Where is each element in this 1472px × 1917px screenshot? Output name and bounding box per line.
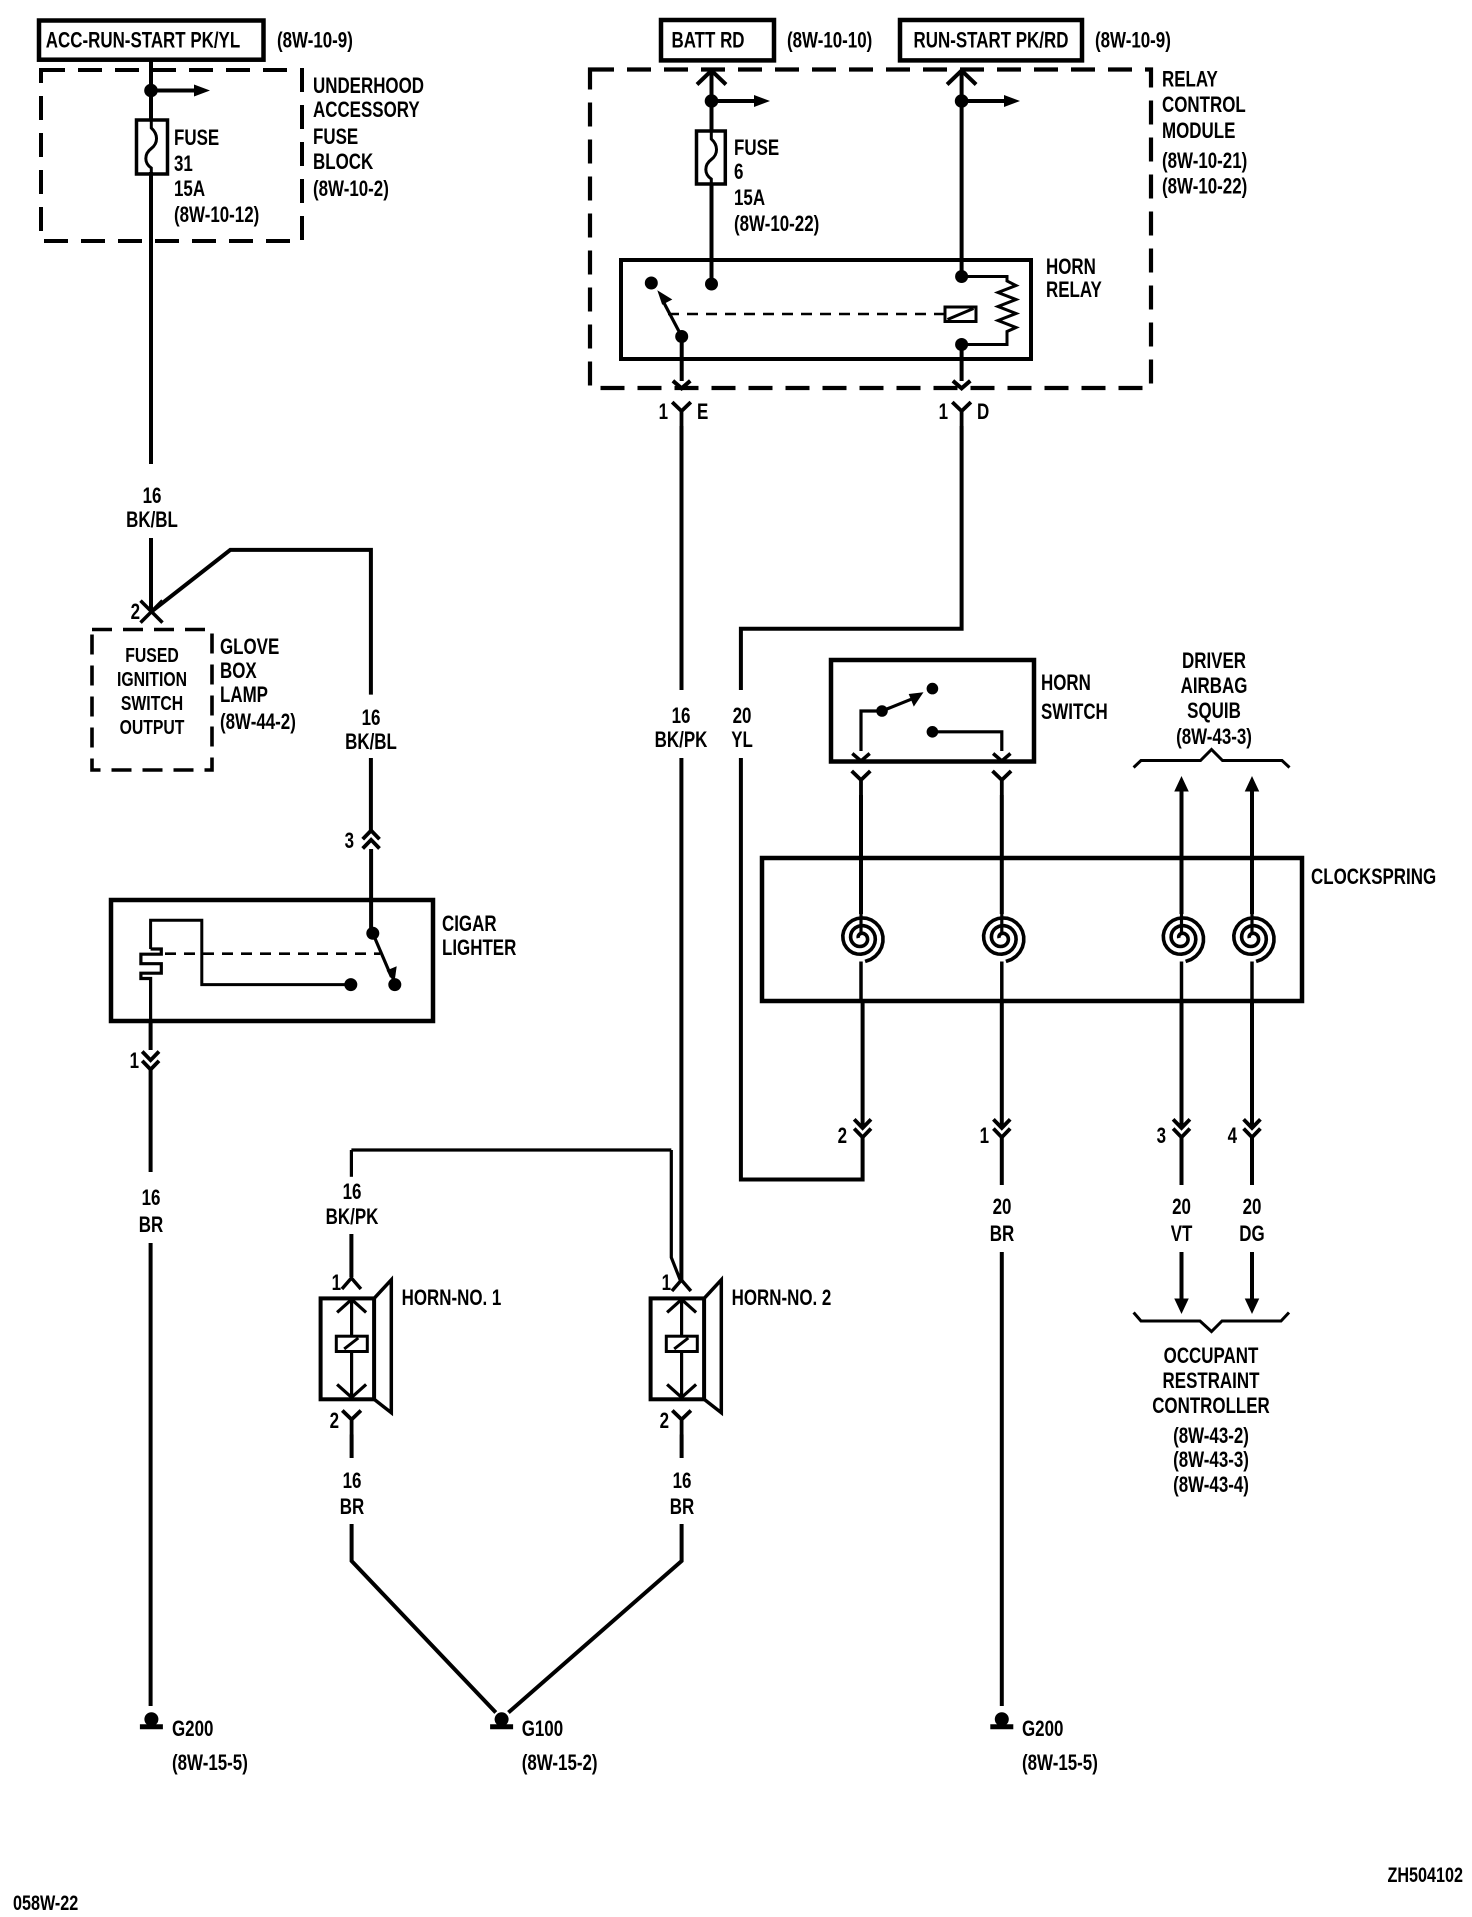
fused ignition switch output box (dashed) — [92, 630, 212, 771]
brace occupant restraint controller — [1134, 1313, 1289, 1332]
svg-text:OCCUPANT: OCCUPANT — [1164, 1344, 1259, 1369]
svg-text:FUSE: FUSE — [174, 126, 219, 151]
svg-text:FUSE: FUSE — [734, 136, 779, 161]
svg-text:2: 2 — [660, 1409, 669, 1434]
relay moving contact dot — [675, 330, 688, 343]
wire relay coil to pin D — [960, 345, 964, 382]
svg-text:CLOCKSPRING: CLOCKSPRING — [1311, 865, 1436, 890]
wire 16 BK/PK from pin E — [680, 426, 684, 690]
svg-text:20: 20 — [993, 1195, 1012, 1220]
wire into horn1 pin 1 — [349, 1234, 353, 1277]
clockspring coil 4 (squib DG) — [1250, 914, 1253, 935]
svg-text:BR: BR — [670, 1495, 694, 1520]
svg-text:D: D — [977, 400, 989, 425]
wire 16 BR upper (left) — [149, 1070, 153, 1173]
arrow down horn switch right pin — [993, 754, 1010, 762]
horn switch box — [831, 660, 1034, 762]
svg-text:ACC-RUN-START PK/YL: ACC-RUN-START PK/YL — [46, 28, 240, 53]
svg-text:6: 6 — [734, 160, 743, 185]
svg-text:(8W-43-2): (8W-43-2) — [1173, 1424, 1249, 1449]
relay switch arm — [664, 302, 682, 337]
svg-text:16: 16 — [672, 704, 691, 729]
underhood accessory fuse block (dashed) — [41, 70, 302, 241]
svg-text:16: 16 — [343, 1469, 362, 1494]
svg-text:(8W-43-3): (8W-43-3) — [1173, 1448, 1249, 1473]
horn relay box — [621, 260, 1031, 359]
svg-text:SQUIB: SQUIB — [1187, 699, 1241, 724]
wire coil1 to connector 2 — [861, 1001, 865, 1128]
svg-text:UNDERHOOD: UNDERHOOD — [313, 74, 424, 99]
svg-text:HORN-NO. 1: HORN-NO. 1 — [402, 1286, 502, 1311]
svg-text:BK/PK: BK/PK — [655, 728, 708, 753]
wire 16 BK/PK to horn no.2 — [679, 758, 683, 1280]
node ACC-RUN-START PK/YL feed box — [39, 21, 264, 60]
svg-text:G100: G100 — [522, 1717, 563, 1742]
svg-text:16: 16 — [343, 1180, 362, 1205]
svg-text:(8W-43-3): (8W-43-3) — [1176, 725, 1252, 750]
in-line connector pin 1 (cigar) — [142, 1052, 159, 1061]
svg-text:(8W-44-2): (8W-44-2) — [220, 710, 296, 735]
arrow feed continues right — [151, 89, 194, 93]
wire RUN-START to relay coil — [960, 71, 964, 277]
relay coil bottom dot — [955, 338, 968, 351]
wire coil2 to connector 1 — [1000, 1001, 1004, 1128]
junction dot fuse 6 feed — [705, 94, 719, 108]
svg-text:1: 1 — [659, 400, 668, 425]
cigar lighter heating element — [141, 949, 161, 1021]
svg-text:(8W-10-9): (8W-10-9) — [277, 28, 353, 53]
fuse F31 — [137, 120, 168, 174]
wire horn1 pin2 — [350, 1435, 354, 1459]
svg-text:20: 20 — [1172, 1195, 1191, 1220]
svg-text:DG: DG — [1239, 1222, 1264, 1247]
wire 16 BK/BL lower segment — [149, 538, 153, 611]
svg-text:RELAY: RELAY — [1046, 278, 1102, 303]
svg-text:1: 1 — [939, 400, 948, 425]
svg-text:16: 16 — [142, 1186, 161, 1211]
svg-text:G200: G200 — [172, 1717, 213, 1742]
svg-text:(8W-10-22): (8W-10-22) — [1162, 174, 1247, 199]
svg-text:(8W-10-2): (8W-10-2) — [313, 177, 389, 202]
arrow down ORC wire 4 — [1245, 1299, 1260, 1315]
wire branch horn1 to horn2 — [351, 1150, 680, 1280]
svg-text:AIRBAG: AIRBAG — [1181, 674, 1248, 699]
arrow up squib wire 4 — [1245, 776, 1260, 792]
svg-text:FUSED: FUSED — [125, 643, 178, 667]
svg-text:ZH504102: ZH504102 — [1388, 1863, 1463, 1887]
horn switch right pin wire — [932, 732, 1001, 751]
connector pin 1 E — [672, 402, 691, 426]
svg-text:BLOCK: BLOCK — [313, 150, 373, 175]
svg-text:(8W-10-9): (8W-10-9) — [1095, 28, 1171, 53]
wire horn1 to G100 — [352, 1524, 496, 1713]
svg-text:BOX: BOX — [220, 659, 257, 684]
svg-text:ACCESSORY: ACCESSORY — [313, 98, 420, 123]
svg-text:(8W-15-2): (8W-15-2) — [522, 1751, 598, 1776]
svg-text:CONTROLLER: CONTROLLER — [1152, 1394, 1270, 1419]
svg-text:G200: G200 — [1022, 1717, 1063, 1742]
svg-text:YL: YL — [731, 728, 753, 753]
connector below horn switch left — [852, 771, 871, 795]
relay common feed dot — [705, 278, 718, 291]
horn switch left pin wire — [861, 711, 882, 751]
wire connector 1 lower — [1000, 1137, 1004, 1185]
wire ACC feed into fuse block — [149, 60, 153, 120]
horn HORN-NO.2 — [651, 1298, 705, 1399]
in-line connector pin 1 (clockspring) — [993, 1119, 1010, 1128]
cigar lighter lamp wire — [151, 920, 351, 984]
wire coil4 to connector 4 — [1250, 1001, 1254, 1128]
horn1 pin 1 connector — [342, 1278, 361, 1289]
svg-text:(8W-10-21): (8W-10-21) — [1162, 149, 1247, 174]
svg-text:1: 1 — [332, 1271, 341, 1296]
svg-text:RELAY: RELAY — [1162, 67, 1218, 92]
arrow RUN-START feed continues right — [962, 99, 1004, 103]
svg-text:16: 16 — [362, 706, 381, 731]
svg-text:(8W-10-22): (8W-10-22) — [734, 212, 819, 237]
wire connector 3 to cigar lighter — [369, 849, 373, 933]
wire horn2 to G100 — [508, 1524, 681, 1713]
svg-text:LAMP: LAMP — [220, 683, 268, 708]
svg-text:BATT RD: BATT RD — [671, 28, 744, 53]
wire branch stub at horn1 — [350, 1150, 353, 1177]
svg-text:2: 2 — [838, 1124, 847, 1149]
horn1 pin 2 connector — [342, 1411, 361, 1435]
svg-text:E: E — [697, 400, 708, 425]
svg-text:058W-22: 058W-22 — [13, 1891, 78, 1912]
arrow up to RUN-START PK/RD — [947, 71, 976, 85]
svg-text:SWITCH: SWITCH — [1041, 700, 1108, 725]
svg-text:31: 31 — [174, 152, 193, 177]
connector below horn switch right — [993, 771, 1012, 795]
wire 20 BR to ground G200 (right) — [1000, 1252, 1004, 1706]
svg-text:(8W-10-12): (8W-10-12) — [174, 203, 259, 228]
clockspring coil 3 (squib VT) — [1180, 914, 1183, 935]
fuse F6 — [697, 131, 726, 184]
svg-text:BK/PK: BK/PK — [326, 1205, 379, 1230]
svg-text:20: 20 — [1243, 1195, 1262, 1220]
clockspring box — [762, 858, 1302, 1001]
node RUN-START PK/RD feed box — [900, 20, 1082, 60]
svg-text:(8W-43-4): (8W-43-4) — [1173, 1473, 1249, 1498]
horn2 pin 2 connector — [672, 1411, 691, 1435]
svg-text:HORN: HORN — [1041, 671, 1091, 696]
wire relay contact to pin E — [680, 337, 684, 382]
arrow down ORC wire 3 — [1174, 1299, 1189, 1315]
horn2 pin 1 connector — [672, 1280, 691, 1291]
svg-text:1: 1 — [662, 1271, 671, 1296]
svg-text:LIGHTER: LIGHTER — [442, 936, 516, 961]
svg-text:SWITCH: SWITCH — [121, 691, 183, 715]
arrow down horn switch left pin — [852, 754, 869, 762]
connector pin 1 D — [952, 402, 971, 426]
relay control module box (dashed) — [590, 70, 1151, 389]
wire 20 DG to ORC — [1250, 1252, 1254, 1299]
svg-text:OUTPUT: OUTPUT — [120, 715, 185, 739]
ground G200 (right) — [995, 1712, 1009, 1726]
in-line connector pin 4 (clockspring) — [1244, 1119, 1261, 1128]
relay resistor — [962, 277, 1016, 345]
cigar lighter dashed actuation line — [165, 952, 380, 955]
wire connector 4 lower — [1250, 1137, 1254, 1185]
svg-text:RESTRAINT: RESTRAINT — [1163, 1369, 1260, 1394]
wire BATT RD to fuse 6 — [710, 71, 714, 132]
svg-text:CIGAR: CIGAR — [442, 912, 497, 937]
brace driver airbag squib — [1134, 750, 1290, 768]
svg-text:BR: BR — [139, 1213, 163, 1238]
svg-text:15A: 15A — [174, 177, 205, 202]
node 2 splice to glove box lamp — [141, 601, 163, 623]
svg-text:BR: BR — [990, 1222, 1014, 1247]
clockspring coil 2 (horn switch 1) — [1000, 914, 1003, 935]
svg-text:HORN-NO. 2: HORN-NO. 2 — [732, 1286, 832, 1311]
clockspring coil 1 (horn switch 2) — [859, 914, 862, 935]
svg-text:15A: 15A — [734, 186, 765, 211]
wire 20 YL from pin D — [741, 426, 962, 690]
svg-text:4: 4 — [1228, 1124, 1237, 1149]
svg-text:2: 2 — [131, 600, 140, 625]
arrow down pin D exit — [953, 381, 970, 389]
svg-text:DRIVER: DRIVER — [1182, 649, 1246, 674]
svg-text:16: 16 — [143, 484, 162, 509]
cigar lighter box — [111, 900, 433, 1021]
svg-text:(8W-15-5): (8W-15-5) — [1022, 1751, 1098, 1776]
svg-text:BR: BR — [340, 1495, 364, 1520]
cigar lighter switch pivot dot — [366, 927, 379, 940]
ground G100 — [495, 1712, 509, 1726]
in-line connector pin 3 (clockspring) — [1173, 1119, 1190, 1128]
svg-text:2: 2 — [330, 1409, 339, 1434]
svg-text:BK/BL: BK/BL — [345, 730, 397, 755]
svg-text:IGNITION: IGNITION — [117, 667, 187, 691]
horn HORN-NO.1 — [321, 1298, 375, 1399]
wire 20 VT to ORC — [1180, 1252, 1184, 1299]
svg-text:1: 1 — [980, 1124, 989, 1149]
wire connector 3 lower — [1180, 1137, 1184, 1185]
svg-text:1: 1 — [130, 1049, 139, 1074]
wire 20 YL to horn switch circuit — [741, 758, 863, 1180]
wire 16 BK/BL from fuse 31 — [149, 172, 153, 464]
wire horn switch left to clockspring — [859, 795, 863, 914]
relay dashed actuation line — [668, 313, 944, 316]
svg-text:MODULE: MODULE — [1162, 119, 1235, 144]
node BATT RD feed box — [661, 20, 774, 60]
svg-text:RUN-START PK/RD: RUN-START PK/RD — [914, 28, 1069, 53]
wire horn2 pin2 — [680, 1435, 684, 1459]
arrow up to BATT RD — [697, 71, 726, 85]
wire branch to cigar lighter — [152, 550, 371, 695]
svg-text:3: 3 — [345, 829, 354, 854]
cigar lighter switch contact dot — [388, 978, 401, 991]
arrow up squib wire 3 — [1174, 776, 1189, 792]
cigar lighter switch arm — [373, 933, 392, 977]
ground G200 (left) — [144, 1712, 158, 1726]
horn switch moving contact dot — [876, 705, 888, 717]
cigar lighter lamp contact dot — [344, 978, 357, 991]
horn switch arm with arrow — [882, 699, 911, 711]
svg-text:FUSE: FUSE — [313, 125, 358, 150]
horn switch lower contact dot — [927, 726, 939, 738]
junction dot fuse 31 feed — [144, 84, 158, 98]
horn switch fixed contact dot — [927, 683, 939, 695]
wire into connector 3 — [369, 758, 373, 830]
svg-text:16: 16 — [673, 1469, 692, 1494]
svg-text:GLOVE: GLOVE — [220, 635, 279, 660]
arrow BATT feed continues right — [712, 99, 755, 103]
wire 16 BR to ground G200 (left) — [149, 1243, 153, 1706]
wire horn switch right to clockspring — [1000, 795, 1004, 914]
svg-text:20: 20 — [733, 704, 752, 729]
wire element to connector 1 — [149, 1021, 153, 1050]
in-line connector pin 2 (clockspring) — [854, 1119, 871, 1128]
svg-text:BK/BL: BK/BL — [126, 508, 178, 533]
svg-text:HORN: HORN — [1046, 255, 1096, 280]
in-line connector pin 3 — [363, 831, 380, 840]
wire coil3 to connector 3 — [1180, 1001, 1184, 1128]
wire fuse 6 to horn relay — [710, 184, 714, 284]
junction dot RUN-START feed — [955, 94, 969, 108]
relay coil symbol — [945, 307, 976, 322]
svg-text:VT: VT — [1171, 1222, 1193, 1247]
svg-text:(8W-10-10): (8W-10-10) — [787, 28, 872, 53]
svg-text:(8W-15-5): (8W-15-5) — [172, 1751, 248, 1776]
relay coil top dot — [955, 270, 968, 283]
relay fixed contact dot — [645, 277, 658, 290]
arrow down pin E exit — [673, 381, 690, 389]
svg-text:CONTROL: CONTROL — [1162, 93, 1246, 118]
svg-text:3: 3 — [1157, 1124, 1166, 1149]
